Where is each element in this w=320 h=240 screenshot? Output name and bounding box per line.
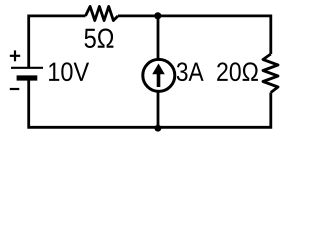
minus polarity sign of V1 (10, 88, 19, 90)
node A junction dot (top) (154, 12, 161, 19)
battery V1 (10V) short thick negative plate (17, 75, 38, 80)
wire: current source I1 bottom down to node B (157, 92, 160, 127)
value label 3A for I1 (177, 62, 204, 81)
node B junction dot (bottom) (155, 125, 162, 132)
current source I1 arrow shaft (157, 73, 161, 88)
wire: R1 right lead to node A (118, 14, 158, 17)
battery V1 (10V) long positive plate (11, 67, 43, 69)
current source I1 arrow head (152, 64, 165, 75)
wire: R2 bottom lead through bottom-right corner to node B (158, 93, 271, 128)
value label 10V for V1 (49, 62, 89, 81)
value label 5 ohm for R1 (85, 28, 114, 47)
value label 20 ohm for R2 (217, 62, 258, 81)
wire: node A down to current source I1 top (157, 16, 160, 59)
plus polarity sign of V1 (10, 50, 20, 61)
resistor R2 (20 ohm) zigzag (263, 54, 278, 93)
resistor R1 (5 ohm) zigzag (86, 6, 119, 20)
wire: battery positive terminal up through top-left corner to R1 left lead (29, 16, 86, 67)
wire: node A through top-right corner down to R2 top lead (158, 16, 271, 54)
wire: node B along bottom to battery negative terminal (29, 80, 158, 127)
current source I1 (3A) circle (143, 59, 175, 91)
